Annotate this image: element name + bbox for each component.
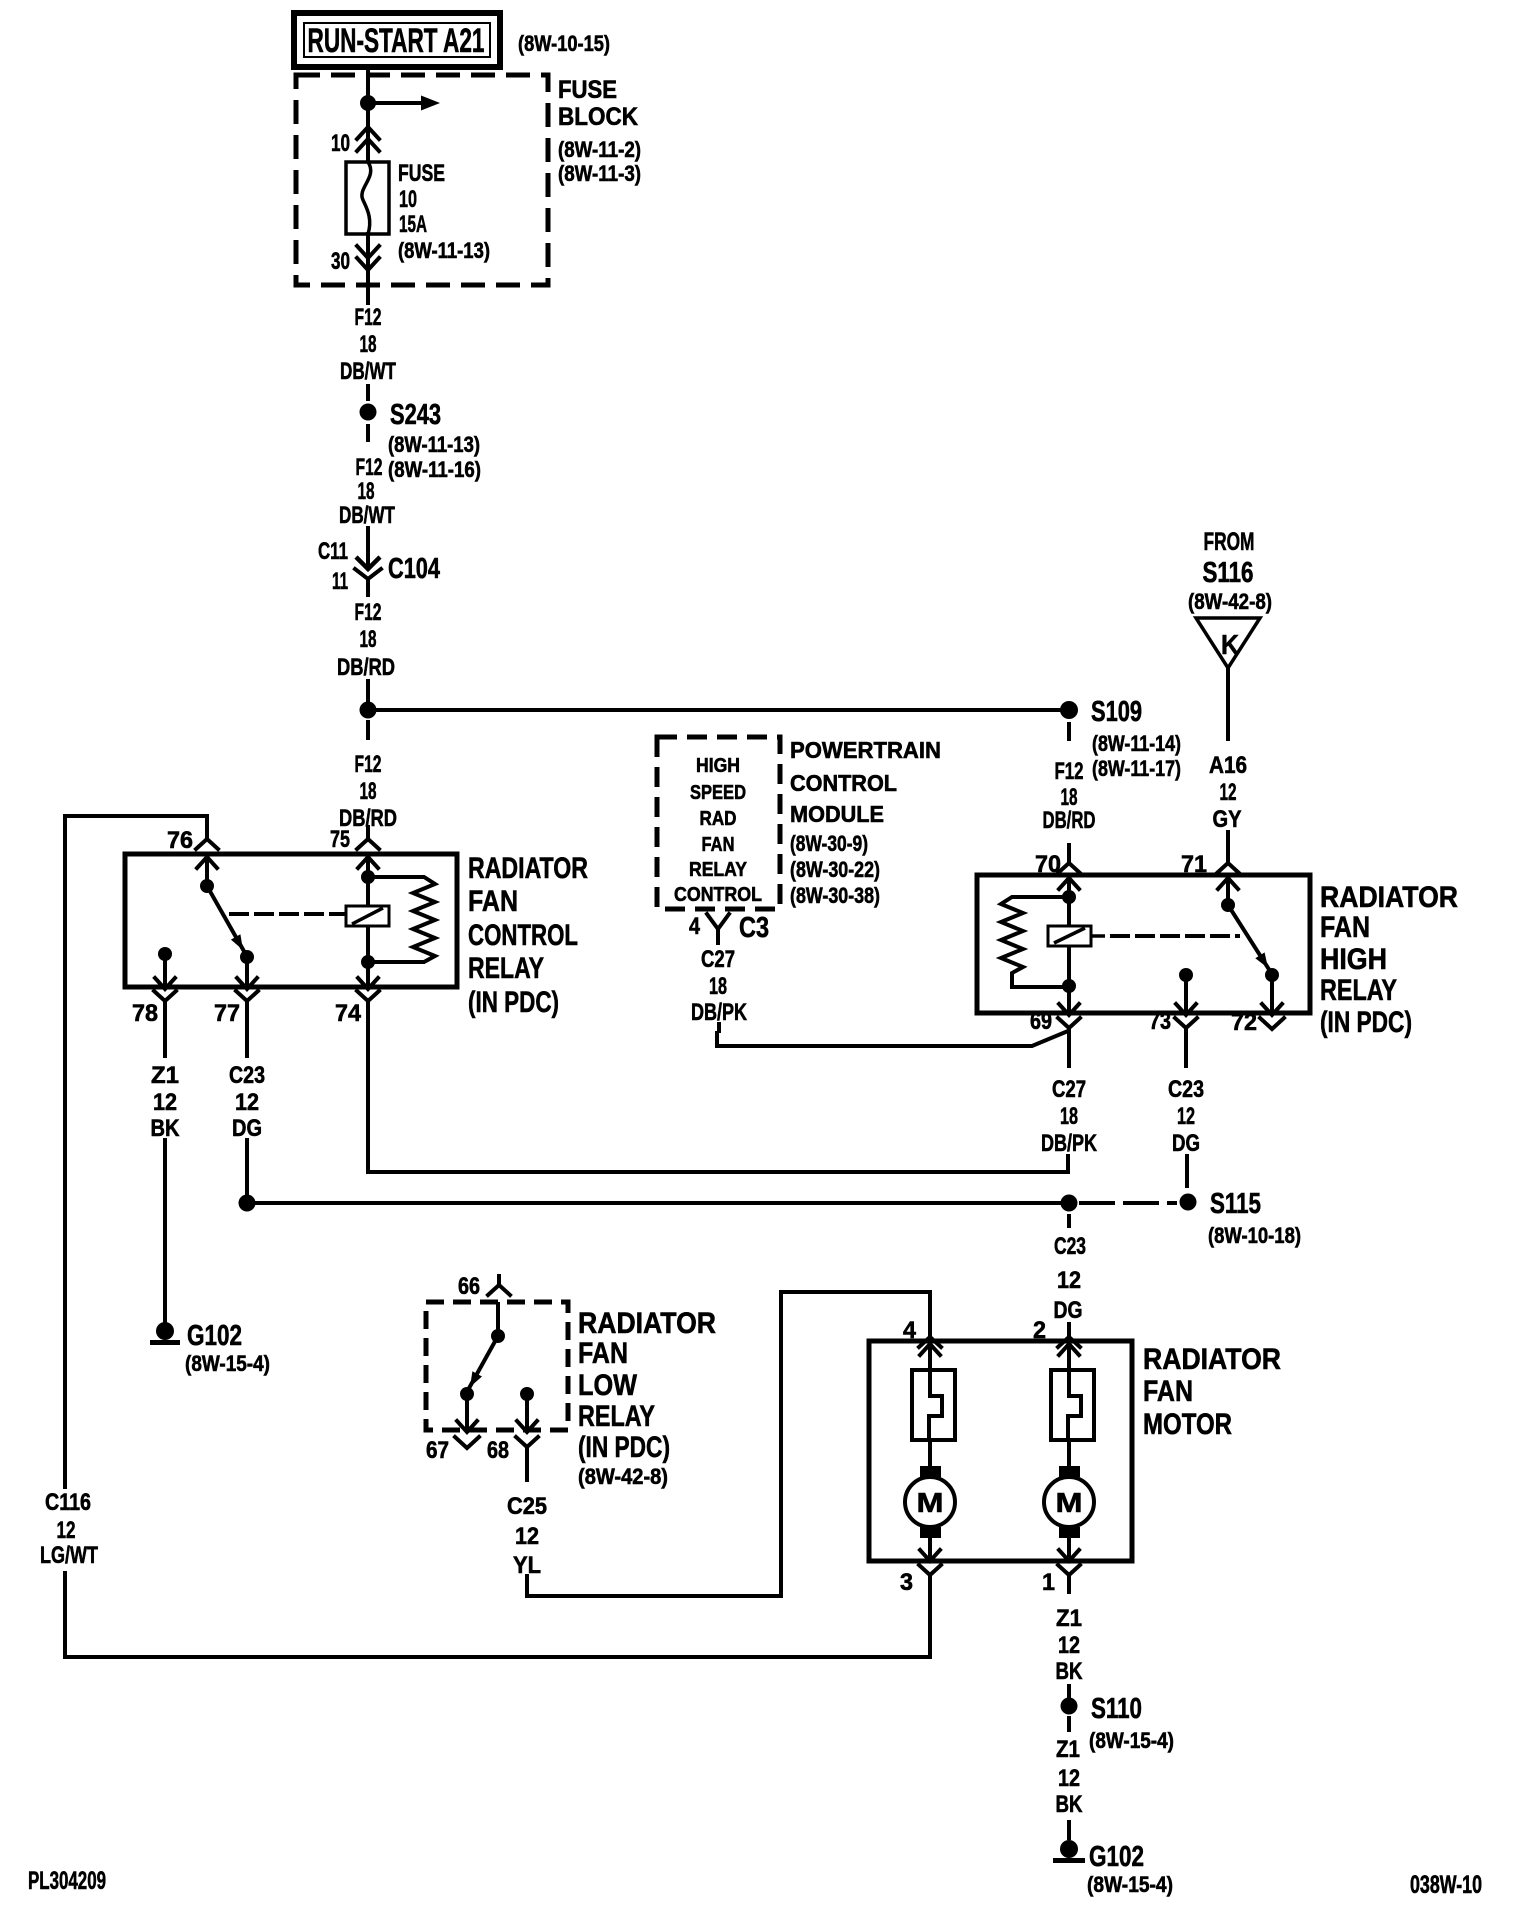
svg-text:1: 1: [1042, 1569, 1055, 1596]
svg-text:12: 12: [1058, 1632, 1080, 1659]
svg-text:67: 67: [426, 1437, 449, 1464]
svg-text:(IN PDC): (IN PDC): [578, 1431, 670, 1464]
wire into C104: [366, 528, 370, 566]
svg-text:F12: F12: [355, 751, 382, 778]
svg-text:12: 12: [235, 1089, 259, 1116]
svg-text:C23: C23: [1054, 1233, 1086, 1260]
label C27 18 DB/PK at PCM: [691, 946, 748, 1026]
junction dot high coil bottom: [1062, 979, 1076, 993]
svg-text:FAN: FAN: [1143, 1375, 1193, 1408]
wire pin 73 to S115: [1185, 1156, 1189, 1186]
svg-text:73: 73: [1149, 1008, 1171, 1035]
switch contact dot: [240, 950, 254, 964]
label RADIATOR FAN CONTROL RELAY (IN PDC): [468, 852, 588, 1019]
svg-text:12: 12: [57, 1517, 76, 1544]
svg-text:C11: C11: [318, 538, 348, 565]
svg-text:Z1: Z1: [1056, 1605, 1082, 1632]
wire C116 left vertical: [63, 816, 67, 1487]
pin 75 entry arrow: [358, 857, 378, 868]
svg-text:C104: C104: [388, 553, 440, 585]
svg-text:18: 18: [709, 973, 727, 1000]
wire pin 74 to node C27: [368, 1022, 1068, 1172]
svg-text:(8W-11-14): (8W-11-14): [1092, 731, 1181, 756]
pin 66 connector: [458, 1273, 510, 1300]
label F12 18 DB/RD at S109: [1043, 758, 1096, 834]
svg-text:FAN: FAN: [468, 885, 518, 918]
bus wire S115: [247, 1201, 1069, 1205]
svg-text:12: 12: [1220, 779, 1237, 806]
junction dot in fuse block: [360, 95, 376, 111]
relay switch blade high relay: [1228, 905, 1270, 971]
svg-text:CONTROL: CONTROL: [674, 884, 762, 906]
pin 1 connector: [1042, 1565, 1080, 1596]
pin 68 exit arrow: [517, 1421, 537, 1432]
pin 76 connector: [167, 827, 218, 854]
svg-text:(8W-11-16): (8W-11-16): [388, 457, 481, 482]
wire stub above S243: [366, 386, 370, 399]
label HIGH SPEED RAD FAN RELAY CONTROL: [674, 755, 762, 906]
label F12 18 DB/WT below S243: [339, 454, 395, 529]
svg-text:HIGH: HIGH: [696, 755, 740, 777]
module PCM dashed box: [657, 737, 780, 909]
relay coil high relay: [1048, 926, 1105, 946]
svg-text:GY: GY: [1213, 806, 1242, 833]
svg-text:F12: F12: [355, 304, 382, 331]
pin 78 contact dot: [158, 947, 172, 961]
label POWERTRAIN CONTROL MODULE: [790, 737, 941, 908]
wire pin 2 branch: [1067, 1344, 1071, 1466]
junction dot pin77 side: [239, 1195, 256, 1212]
svg-text:18: 18: [358, 478, 375, 505]
pin 73 connector: [1149, 1008, 1197, 1066]
svg-text:FUSE: FUSE: [558, 76, 617, 104]
relay box radiator fan control relay: [125, 854, 457, 987]
svg-text:MOTOR: MOTOR: [1143, 1408, 1232, 1441]
svg-text:C27: C27: [1052, 1076, 1086, 1103]
svg-text:RAD: RAD: [700, 808, 737, 830]
svg-text:72: 72: [1231, 1009, 1257, 1036]
dashed actuator link high relay: [1112, 934, 1238, 938]
svg-text:30: 30: [331, 248, 350, 275]
pin 72 exit arrow: [1262, 1004, 1282, 1015]
wire to pin 67: [465, 1394, 469, 1430]
pin 3 exit arrow: [920, 1550, 940, 1561]
svg-text:(8W-30-9): (8W-30-9): [790, 831, 868, 856]
wire A16 from triangle: [1226, 668, 1230, 739]
svg-text:BK: BK: [1056, 1791, 1084, 1818]
svg-text:MODULE: MODULE: [790, 801, 884, 827]
label C23 12 DG to motor: [1054, 1233, 1087, 1324]
dashed bus to S115: [1081, 1201, 1175, 1205]
wire C116 top corner to pin 76: [65, 816, 207, 827]
wire pin 66 inside low relay: [496, 1304, 500, 1336]
pin 74 exit arrow: [358, 978, 378, 989]
pin 4 connector: [903, 1317, 941, 1347]
svg-text:(8W-11-13): (8W-11-13): [388, 432, 480, 457]
label C25 12 YL: [507, 1493, 547, 1579]
junction dot coil bottom: [361, 955, 375, 969]
splice S110: [1061, 1693, 1143, 1725]
svg-text:BK: BK: [151, 1115, 181, 1142]
label FUSE BLOCK: [558, 76, 641, 186]
svg-text:Z1: Z1: [1056, 1736, 1080, 1763]
label fuse value: [398, 160, 490, 263]
junction dot left of bus: [360, 702, 377, 719]
svg-text:66: 66: [458, 1273, 480, 1300]
svg-text:(8W-10-18): (8W-10-18): [1208, 1223, 1301, 1248]
wire stub above S110: [1067, 1686, 1071, 1697]
thermal limiter right: [1051, 1370, 1094, 1440]
motor box radiator fan motor: [869, 1341, 1132, 1561]
label F12 18 DB/RD at control relay: [339, 751, 397, 832]
svg-text:18: 18: [360, 331, 377, 358]
label Z1 12 BK below pin 1: [1056, 1605, 1084, 1685]
ground G102 right: [1053, 1840, 1173, 1897]
svg-text:C25: C25: [507, 1493, 547, 1520]
pin 73 contact dot: [1179, 968, 1193, 982]
pin 70 connector: [1035, 845, 1080, 878]
svg-text:(8W-42-8): (8W-42-8): [578, 1464, 668, 1489]
label Z1 12 BK: [151, 1062, 181, 1142]
svg-text:(8W-11-13): (8W-11-13): [398, 238, 490, 263]
arrow branch to right: [368, 96, 440, 111]
svg-text:RELAY: RELAY: [1320, 974, 1397, 1007]
svg-text:12: 12: [515, 1523, 539, 1550]
thermal limiter left: [912, 1370, 955, 1440]
pin 76 entry arrow: [197, 857, 217, 868]
svg-text:SPEED: SPEED: [690, 782, 746, 804]
label F12 18 DB/RD: [337, 599, 395, 681]
switch pivot dot: [200, 879, 214, 893]
relay box radiator fan high relay: [977, 875, 1310, 1013]
connector triangle K: [1196, 618, 1260, 668]
pin 67 connector: [426, 1437, 479, 1464]
svg-text:15A: 15A: [399, 211, 427, 238]
svg-text:10: 10: [399, 186, 417, 213]
pin 1 exit arrow: [1059, 1550, 1079, 1561]
svg-text:038W-10: 038W-10: [1410, 1871, 1482, 1899]
switch end dot low relay: [460, 1387, 474, 1401]
svg-text:12: 12: [153, 1089, 177, 1116]
pin 72 connector: [1231, 1009, 1284, 1036]
splice S243: [360, 399, 442, 431]
connector C3 pin 4: [689, 912, 769, 944]
svg-text:(8W-30-38): (8W-30-38): [790, 883, 880, 908]
pin 71 entry arrow: [1218, 878, 1238, 889]
svg-text:76: 76: [167, 827, 193, 854]
relay box radiator fan low relay: [426, 1302, 568, 1430]
wire stub above G102: [1067, 1822, 1071, 1838]
svg-text:F12: F12: [1055, 758, 1084, 785]
pin 2 connector: [1033, 1317, 1080, 1347]
svg-text:PL304209: PL304209: [28, 1867, 106, 1895]
wire stub below S109: [1067, 724, 1071, 739]
svg-text:RELAY: RELAY: [689, 859, 748, 881]
ground G102 left: [150, 1320, 270, 1376]
label Z1 12 BK below S110: [1056, 1736, 1084, 1818]
pin 73 exit arrow: [1176, 1004, 1196, 1015]
label RADIATOR FAN LOW RELAY (IN PDC) (8W-42-8): [578, 1307, 716, 1489]
svg-text:FAN: FAN: [1320, 911, 1370, 944]
junction dot high coil top: [1062, 890, 1076, 904]
svg-text:C116: C116: [45, 1489, 91, 1516]
junction dot coil top: [361, 870, 375, 884]
svg-text:(8W-42-8): (8W-42-8): [1188, 589, 1272, 614]
wire Z1 from pin 78: [163, 1022, 167, 1056]
label F12 18 DB/WT: [340, 304, 396, 385]
svg-text:3: 3: [900, 1569, 913, 1596]
svg-text:CONTROL: CONTROL: [790, 770, 897, 796]
pin 71 connector: [1181, 832, 1239, 878]
svg-text:RELAY: RELAY: [468, 952, 544, 985]
svg-text:BK: BK: [1056, 1658, 1084, 1685]
wire fuse output F12: [366, 234, 370, 303]
svg-text:(IN PDC): (IN PDC): [468, 986, 559, 1019]
svg-text:M: M: [1056, 1487, 1083, 1518]
relay switch blade low relay: [468, 1336, 498, 1390]
svg-text:DB/RD: DB/RD: [1043, 807, 1096, 834]
wire pin 77 to S115 bus: [245, 1140, 249, 1203]
svg-text:10: 10: [331, 130, 350, 157]
wire stub below S243: [366, 426, 370, 440]
svg-text:DB/WT: DB/WT: [340, 358, 396, 385]
svg-text:18: 18: [360, 778, 377, 805]
svg-text:(8W-15-4): (8W-15-4): [1089, 1728, 1174, 1753]
wire contact to pin 77: [245, 957, 249, 987]
wire stub below S110: [1067, 1718, 1071, 1730]
svg-text:G102: G102: [1089, 1841, 1144, 1873]
svg-text:12: 12: [1058, 1765, 1080, 1792]
svg-text:12: 12: [1057, 1267, 1081, 1294]
label C23 12 DG pin77: [229, 1062, 265, 1142]
bus wire to S109: [368, 708, 1069, 712]
node RUN-START A21 feed box: [294, 13, 500, 67]
svg-text:S115: S115: [1210, 1188, 1261, 1220]
svg-text:DG: DG: [1172, 1130, 1200, 1157]
splice S115: [1180, 1188, 1262, 1220]
splice S109: [1060, 696, 1142, 728]
wire stub below S115 junction: [1067, 1216, 1071, 1226]
switch contact dot high relay: [1265, 968, 1279, 982]
svg-text:RADIATOR: RADIATOR: [1320, 881, 1458, 914]
svg-text:RELAY: RELAY: [578, 1400, 655, 1433]
svg-text:(8W-15-4): (8W-15-4): [185, 1351, 270, 1376]
svg-text:75: 75: [330, 826, 350, 853]
label RADIATOR FAN MOTOR: [1143, 1343, 1281, 1441]
svg-text:(8W-10-15): (8W-10-15): [518, 31, 610, 56]
motor M right: [1044, 1466, 1094, 1559]
wire C116 lower segment: [65, 1573, 930, 1657]
switch pivot dot low relay: [491, 1329, 505, 1343]
wire pin 75 to coil: [366, 857, 370, 987]
wire PCM to high relay pin 69: [717, 1031, 1068, 1046]
pin 77 exit arrow: [237, 978, 257, 989]
connector C104: [318, 538, 440, 595]
svg-text:S243: S243: [390, 399, 441, 431]
pin 70 entry arrow: [1059, 878, 1079, 889]
svg-text:G102: G102: [187, 1320, 242, 1352]
wire stub below junction dot: [366, 722, 370, 738]
label A16 12 GY: [1209, 752, 1247, 833]
wire stub below DB/PK: [717, 1024, 721, 1031]
svg-text:DB/WT: DB/WT: [339, 502, 395, 529]
wire pin 73 inside: [1184, 975, 1188, 1013]
label S243 references: [388, 432, 481, 482]
svg-text:68: 68: [487, 1437, 509, 1464]
wire pin 78 inside: [163, 954, 167, 987]
junction dot S115 left: [1061, 1195, 1078, 1212]
svg-text:BLOCK: BLOCK: [558, 103, 638, 131]
svg-text:(8W-11-17): (8W-11-17): [1092, 756, 1181, 781]
svg-text:F12: F12: [355, 599, 382, 626]
svg-text:F12: F12: [356, 454, 383, 481]
svg-text:(IN PDC): (IN PDC): [1320, 1006, 1412, 1039]
svg-text:C23: C23: [229, 1062, 265, 1089]
pin 78 exit arrow: [155, 978, 175, 989]
motor M left: [905, 1466, 955, 1559]
svg-text:C27: C27: [701, 946, 735, 973]
svg-text:(8W-30-22): (8W-30-22): [790, 857, 880, 882]
label C116 12 LG/WT: [40, 1489, 98, 1569]
svg-text:Z1: Z1: [151, 1062, 179, 1089]
svg-text:DB/PK: DB/PK: [1041, 1130, 1098, 1157]
label S109 references: [1092, 731, 1181, 781]
svg-text:RADIATOR: RADIATOR: [578, 1307, 716, 1340]
svg-text:(8W-11-3): (8W-11-3): [558, 161, 641, 186]
wire pin 70 through coil: [1067, 878, 1071, 1013]
pin 77 connector: [214, 991, 258, 1027]
relay coil control relay: [346, 906, 389, 926]
wire pin 68 inside: [525, 1394, 529, 1430]
svg-text:77: 77: [214, 1000, 240, 1027]
svg-text:LG/WT: LG/WT: [40, 1542, 98, 1569]
switch pivot dot high relay: [1221, 898, 1235, 912]
svg-text:HIGH: HIGH: [1320, 943, 1387, 976]
svg-text:78: 78: [132, 1000, 158, 1027]
svg-text:4: 4: [689, 913, 701, 940]
svg-text:K: K: [1221, 629, 1239, 660]
pin 67 exit arrow: [457, 1421, 477, 1432]
svg-text:12: 12: [1177, 1103, 1195, 1130]
svg-text:18: 18: [1060, 1103, 1078, 1130]
terminal 30 double chevron: [331, 246, 379, 275]
svg-text:18: 18: [360, 626, 377, 653]
svg-text:DG: DG: [232, 1115, 262, 1142]
svg-text:DB/RD: DB/RD: [337, 654, 395, 681]
svg-text:M: M: [917, 1487, 944, 1518]
pin 2 entry arrow: [1059, 1344, 1079, 1355]
wire to ground G102: [163, 1140, 167, 1324]
svg-text:69: 69: [1030, 1008, 1052, 1035]
wire pin 4 branch: [928, 1344, 932, 1466]
svg-text:S116: S116: [1203, 557, 1254, 589]
svg-text:DB/PK: DB/PK: [691, 999, 748, 1026]
pin 78 connector: [132, 991, 176, 1027]
svg-text:POWERTRAIN: POWERTRAIN: [790, 737, 941, 763]
wire contact to pin 72: [1270, 975, 1274, 1013]
off-page reference FROM S116: [1188, 528, 1272, 614]
svg-text:(8W-11-2): (8W-11-2): [558, 137, 641, 162]
pin 68 connector: [487, 1437, 538, 1480]
relay switch blade: [207, 886, 245, 953]
svg-text:C23: C23: [1168, 1076, 1204, 1103]
svg-text:FAN: FAN: [702, 834, 735, 856]
fuse block dashed enclosure: [296, 75, 548, 285]
wire C23 from pin 77: [245, 1022, 249, 1056]
svg-text:S110: S110: [1091, 1693, 1142, 1725]
svg-text:11: 11: [332, 568, 348, 595]
wire down to bus junction: [366, 681, 370, 710]
svg-text:(8W-15-4): (8W-15-4): [1087, 1872, 1173, 1897]
svg-text:S109: S109: [1091, 696, 1142, 728]
pin 69 exit arrow: [1059, 1004, 1079, 1015]
pin 74 connector: [335, 991, 379, 1027]
wire RUN-START to fuse: [366, 70, 370, 163]
pin 4 entry arrow: [920, 1344, 940, 1355]
label RADIATOR FAN HIGH RELAY (IN PDC): [1320, 881, 1458, 1039]
wire pin 76 to switch: [205, 857, 209, 886]
label C23 12 DG pin 73: [1168, 1076, 1204, 1157]
label C27 18 DB/PK pin 69: [1041, 1076, 1098, 1157]
svg-text:LOW: LOW: [578, 1369, 638, 1402]
resistor across control relay coil: [374, 877, 435, 962]
pin 3 connector: [900, 1565, 941, 1596]
svg-text:C3: C3: [739, 912, 769, 944]
svg-text:RADIATOR: RADIATOR: [1143, 1343, 1281, 1376]
terminal 10 double chevron: [331, 127, 379, 157]
pin 68 contact dot: [520, 1387, 534, 1401]
wire pin 71 to switch: [1226, 878, 1230, 905]
resistor across high relay coil: [1001, 897, 1062, 987]
svg-text:FUSE: FUSE: [398, 160, 445, 187]
svg-text:FAN: FAN: [578, 1337, 628, 1370]
fuse FUSE 10 15A: [346, 162, 389, 234]
svg-text:A16: A16: [1209, 752, 1247, 779]
pin 75 connector: [330, 826, 379, 853]
svg-text:CONTROL: CONTROL: [468, 919, 578, 952]
svg-text:FROM: FROM: [1204, 528, 1255, 556]
dashed actuator link: [231, 912, 344, 916]
svg-text:DG: DG: [1054, 1297, 1083, 1324]
svg-text:74: 74: [335, 1000, 362, 1027]
svg-text:RUN-START A21: RUN-START A21: [308, 22, 485, 60]
pin 69 connector: [1030, 1008, 1080, 1066]
wire C25 to motor pin 4: [527, 1292, 930, 1596]
svg-text:RADIATOR: RADIATOR: [468, 852, 588, 885]
